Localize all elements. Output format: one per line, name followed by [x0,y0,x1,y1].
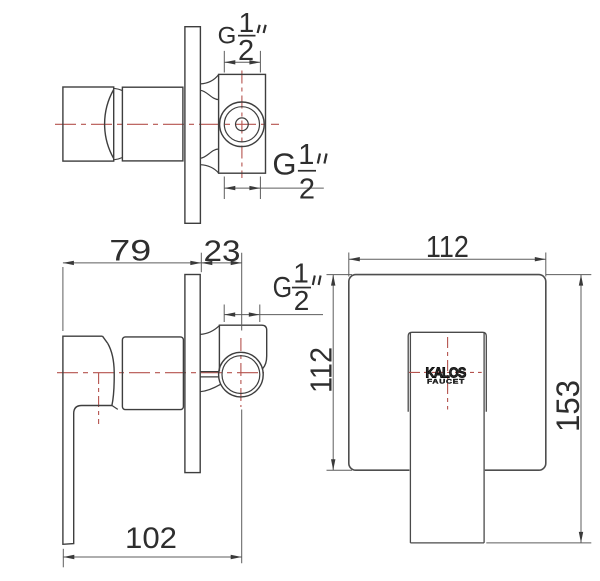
arrow 153 top [579,275,583,286]
lever handle (side) [63,336,112,544]
arrow 112 left top [331,275,335,286]
fillet plate to body top (view 2) [200,326,219,335]
arrow left (bottom port) [224,186,235,190]
wall plate (side) [185,27,201,224]
extension lines bottom port [224,177,260,200]
dimension line top port [224,61,260,63]
port boss outer circle (view 2) [219,352,264,397]
port boss outer circle [220,102,265,147]
dimension line 112 left [332,275,334,471]
arrow 112 left bottom [331,459,335,470]
centerline vertical through port (view 2) [240,338,242,407]
handle right inner edge [483,333,485,543]
arrow front port left [224,312,235,316]
arrow 23 right [231,261,242,265]
handle collar outer (front) [408,332,486,412]
handle left inner edge [409,333,411,543]
svg-text:112: 112 [426,229,469,264]
dimension line 153 [580,275,582,543]
wall plate (front) [349,275,546,471]
svg-text:G: G [218,23,237,50]
svg-text:23: 23 [204,235,241,268]
handle knob (end view) [63,87,114,161]
extension line plate right (79/23) [200,253,202,273]
arrow right (bottom port) [249,186,260,190]
dimension line 112 top [349,258,546,260]
handle hub taper curve [108,344,114,406]
svg-text:1: 1 [298,139,314,171]
centerline vertical (front) [447,337,449,410]
extension lines 112 left [327,275,353,471]
valve body (side) [219,74,266,173]
svg-text:102: 102 [125,522,177,555]
arrow front port right [249,312,260,316]
handle hub slant [103,336,108,343]
dimension line 102 [63,556,242,558]
label G1/2 top [218,7,266,67]
fillet plate to body top-outer [200,75,218,84]
extension lines front port (view 2) [224,305,260,323]
port stub lines [200,372,219,377]
arrow right (top port) [249,60,260,64]
arrow 23 left [201,261,212,265]
centerline horizontal (view 1) [55,123,279,125]
extension line 102 left [62,549,64,568]
fillet plate to body bottom-outer [200,165,218,173]
fillet plate to body bottom-inner [200,149,218,158]
port boss middle circle [224,107,259,142]
arrow 102 left [63,555,74,559]
arrow 112 top left [349,257,360,261]
extension line left (79/102) [62,267,64,331]
arrow 79 left [63,261,74,265]
neck top curve [114,88,123,90]
svg-text:79: 79 [109,234,151,267]
wall plate (view 2) [185,275,200,473]
handle bottom edge [410,542,484,544]
svg-text:2: 2 [299,174,315,206]
centerline horizontal (front) [409,371,482,373]
handle hub bottom step [112,406,118,410]
svg-text:1: 1 [293,258,309,289]
arrow 102 right [231,555,242,559]
extension lines 112 top [349,253,546,277]
port boss inner circle (view 2) [222,356,260,394]
dimension line bottom port with leader [224,187,323,189]
label G1/2 right of view 1 [272,139,326,206]
port hole inner circle [236,118,249,131]
arrow left (top port) [224,60,235,64]
svg-text:112: 112 [304,347,339,393]
svg-text:153: 153 [550,380,586,432]
cartridge cylinder (view 2) [122,337,183,410]
extension line long right (23/102) [241,253,243,564]
arrow 153 bottom [579,532,583,543]
centerline vertical through ports (view 1) [241,71,243,179]
cartridge cylinder [122,87,182,161]
arrow 79 right [190,261,201,265]
valve body outline (view 2) [219,325,266,371]
neck bottom curve [114,158,123,160]
dimension line 79 and 23 [63,262,242,264]
extension lines top port [224,51,260,73]
centerline lever axis (view 2) [98,373,100,424]
centerline horizontal (view 2) [57,372,264,374]
dimension line front port with leader [224,314,323,316]
svg-text:G: G [273,272,293,304]
svg-text:1: 1 [239,7,255,38]
fillet plate to body bottom (view 2) [200,384,221,392]
fillet plate to body top-inner [200,90,218,99]
extension line 153 top [546,274,592,276]
svg-text:2: 2 [294,285,310,316]
handle stem white mask [409,467,484,543]
svg-text:FAUCET: FAUCET [427,378,465,385]
knob concave face arc [105,90,114,159]
svg-text:G: G [272,147,296,182]
arrow 112 top right [535,257,546,261]
label G1/2 (view 2) [273,258,321,317]
svg-text:2: 2 [238,35,254,67]
extension line 153 bottom [486,542,591,544]
